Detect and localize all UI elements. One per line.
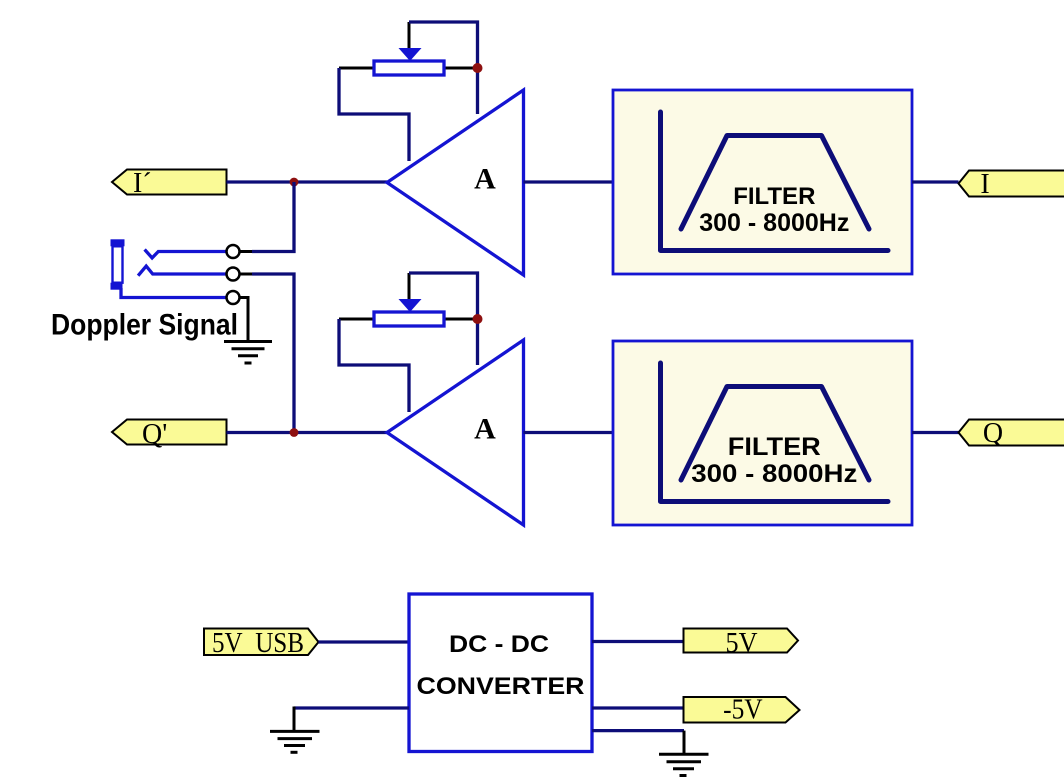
wire pot P2 feedback left bbox=[339, 319, 409, 412]
wire junction to jack contact 1 bbox=[252, 182, 294, 252]
svg-text:Q: Q bbox=[983, 418, 1003, 449]
dc-dc converter U1 bbox=[409, 594, 592, 752]
contact pin 3 bbox=[227, 291, 240, 304]
wire converter to port -5V bbox=[592, 706, 684, 709]
wire pot P2 feedback top bbox=[409, 273, 478, 365]
port Q bbox=[959, 418, 1064, 449]
wire converter ground right bbox=[592, 729, 684, 732]
wire filter FL2 to port Q bbox=[912, 431, 959, 434]
node pot P2 wiper junction bbox=[473, 314, 483, 324]
op-amp A2 bbox=[387, 340, 524, 525]
svg-text:A: A bbox=[474, 163, 496, 196]
filter block FL1 bbox=[613, 90, 912, 274]
svg-text:I´: I´ bbox=[133, 168, 152, 199]
svg-text:5V: 5V bbox=[726, 628, 758, 659]
svg-text:A: A bbox=[474, 413, 496, 446]
svg-text:I: I bbox=[980, 169, 989, 200]
ground (converter input) bbox=[270, 731, 320, 752]
wire converter ground left bbox=[294, 706, 409, 709]
wire pot P1 feedback top bbox=[409, 22, 478, 114]
svg-text:DC - DC: DC - DC bbox=[449, 631, 549, 658]
wire contact 3 to ground bbox=[240, 298, 249, 342]
svg-text:300 - 8000Hz: 300 - 8000Hz bbox=[699, 209, 849, 237]
wire jack sleeve to contact 3 bbox=[121, 288, 227, 298]
pin stub contact 2 bbox=[240, 273, 253, 276]
op-amp A1 bbox=[387, 90, 524, 275]
svg-text:-5V: -5V bbox=[723, 695, 763, 726]
svg-text:FILTER: FILTER bbox=[733, 183, 815, 210]
node pot P1 wiper junction bbox=[473, 63, 483, 73]
switch arm contact 1 bbox=[145, 250, 227, 258]
wire Q' to amp A2 bbox=[227, 431, 388, 434]
port 5V USB bbox=[204, 628, 319, 659]
contact pin 1 bbox=[227, 245, 240, 258]
svg-text:FILTER: FILTER bbox=[728, 433, 821, 461]
node Q' junction bbox=[290, 428, 299, 437]
port I' bbox=[112, 168, 227, 199]
wire amp A1 to filter FL1 bbox=[524, 180, 614, 183]
connector J1 phone jack bbox=[111, 239, 125, 289]
port 5V bbox=[684, 628, 799, 659]
wire filter FL1 to port I bbox=[912, 180, 959, 183]
svg-text:5V USB: 5V USB bbox=[212, 628, 304, 659]
pin stub contact 1 bbox=[240, 250, 253, 253]
pin stub ground right bbox=[683, 731, 686, 755]
wire 5V USB to converter bbox=[319, 640, 410, 643]
wire I' to amp A1 bbox=[227, 180, 388, 183]
wire pot P1 feedback left bbox=[339, 68, 409, 161]
wire amp A2 to filter FL2 bbox=[524, 431, 614, 434]
svg-text:Doppler Signal: Doppler Signal bbox=[51, 309, 238, 342]
node I' junction bbox=[290, 178, 299, 187]
wire jack contact 2 to Q' junction bbox=[252, 274, 294, 433]
svg-text:CONVERTER: CONVERTER bbox=[417, 673, 585, 700]
filter block FL2 bbox=[613, 341, 912, 525]
svg-text:300 - 8000Hz: 300 - 8000Hz bbox=[691, 460, 857, 488]
contact pin 2 bbox=[227, 268, 240, 281]
ground (doppler) bbox=[224, 342, 272, 364]
pin stub ground left bbox=[293, 707, 296, 732]
svg-text:Q': Q' bbox=[142, 419, 167, 450]
switch arm contact 2 bbox=[138, 266, 226, 276]
potentiometer P1 bbox=[339, 22, 478, 75]
port I bbox=[959, 169, 1064, 200]
potentiometer P2 bbox=[339, 273, 478, 326]
ground (converter output) bbox=[659, 754, 709, 775]
port Q' bbox=[112, 419, 227, 450]
wire converter to port 5V bbox=[592, 640, 684, 643]
port -5V bbox=[684, 695, 800, 726]
